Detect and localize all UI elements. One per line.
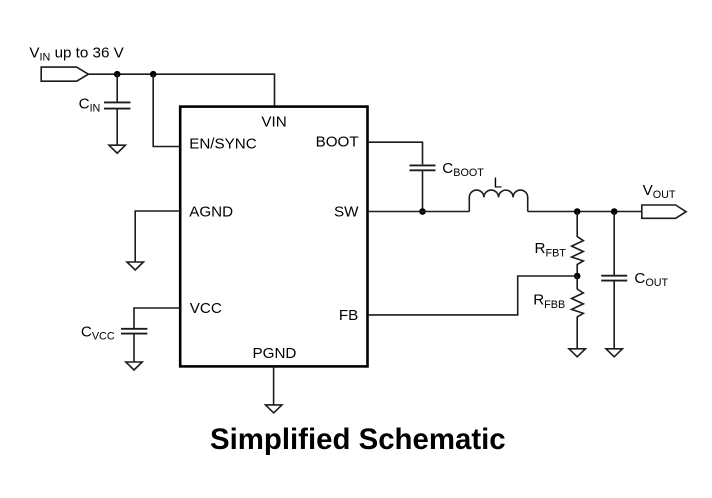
svg-text:PGND: PGND [253, 345, 297, 362]
svg-text:EN/SYNC: EN/SYNC [189, 136, 257, 153]
wire AGND [135, 211, 180, 262]
svg-text:AGND: AGND [189, 203, 233, 220]
capacitor CBOOT [410, 165, 436, 211]
IC U1 body [180, 107, 367, 367]
pin label SW [334, 204, 359, 221]
svg-text:L: L [494, 174, 502, 191]
title Simplified Schematic [210, 423, 506, 456]
pin label BOOT [316, 134, 359, 151]
label COUT [634, 270, 668, 289]
net label VIN up to 36 V [29, 45, 124, 64]
wire SW [368, 211, 470, 213]
junction dot SW node at CBOOT [419, 208, 426, 215]
capacitor CIN [104, 74, 131, 145]
svg-text:VCC: VCC [190, 300, 222, 317]
label L [494, 174, 502, 191]
label CVCC [81, 324, 115, 343]
ground (COUT) [606, 349, 622, 357]
ground (AGND) [127, 262, 143, 270]
wire VCC [134, 308, 180, 329]
junction dot FB node [574, 273, 581, 280]
pin label AGND [189, 203, 233, 220]
resistor RFBT [572, 212, 584, 277]
capacitor CVCC [121, 329, 147, 362]
pin label VCC [190, 300, 222, 317]
svg-text:Simplified Schematic: Simplified Schematic [210, 423, 506, 456]
ground (CIN) [109, 145, 125, 153]
junction dot EN/SYNC branch [150, 71, 157, 78]
label RFBT [535, 240, 567, 259]
input flag VIN [41, 67, 88, 81]
wire VIN input to IC [88, 74, 274, 105]
junction dot COUT top [611, 208, 618, 215]
svg-text:SW: SW [334, 204, 359, 221]
label CBOOT [442, 160, 484, 179]
wire PGND [273, 366, 275, 404]
pin label VIN [261, 113, 286, 130]
wire FB [368, 276, 578, 315]
capacitor COUT [601, 212, 627, 349]
svg-text:FB: FB [339, 307, 358, 324]
resistor RFBB [572, 276, 584, 349]
svg-text:BOOT: BOOT [316, 134, 359, 151]
junction dot RFBT top [574, 208, 581, 215]
pin label FB [339, 307, 358, 324]
pin label EN/SYNC [189, 136, 257, 153]
ground (PGND) [266, 405, 282, 413]
svg-text:VIN: VIN [261, 113, 286, 130]
ground (RFBB) [569, 349, 585, 357]
wire BOOT [368, 142, 423, 164]
wire SW to VOUT [528, 211, 642, 213]
label CIN [79, 95, 101, 114]
inductor L [469, 190, 527, 211]
label RFBB [533, 292, 565, 311]
label VOUT [643, 182, 676, 201]
wire EN/SYNC branch [153, 74, 179, 146]
pin label PGND [253, 345, 297, 362]
output flag VOUT [642, 205, 686, 218]
ground (CVCC) [126, 362, 142, 370]
junction dot CIN [114, 71, 121, 78]
